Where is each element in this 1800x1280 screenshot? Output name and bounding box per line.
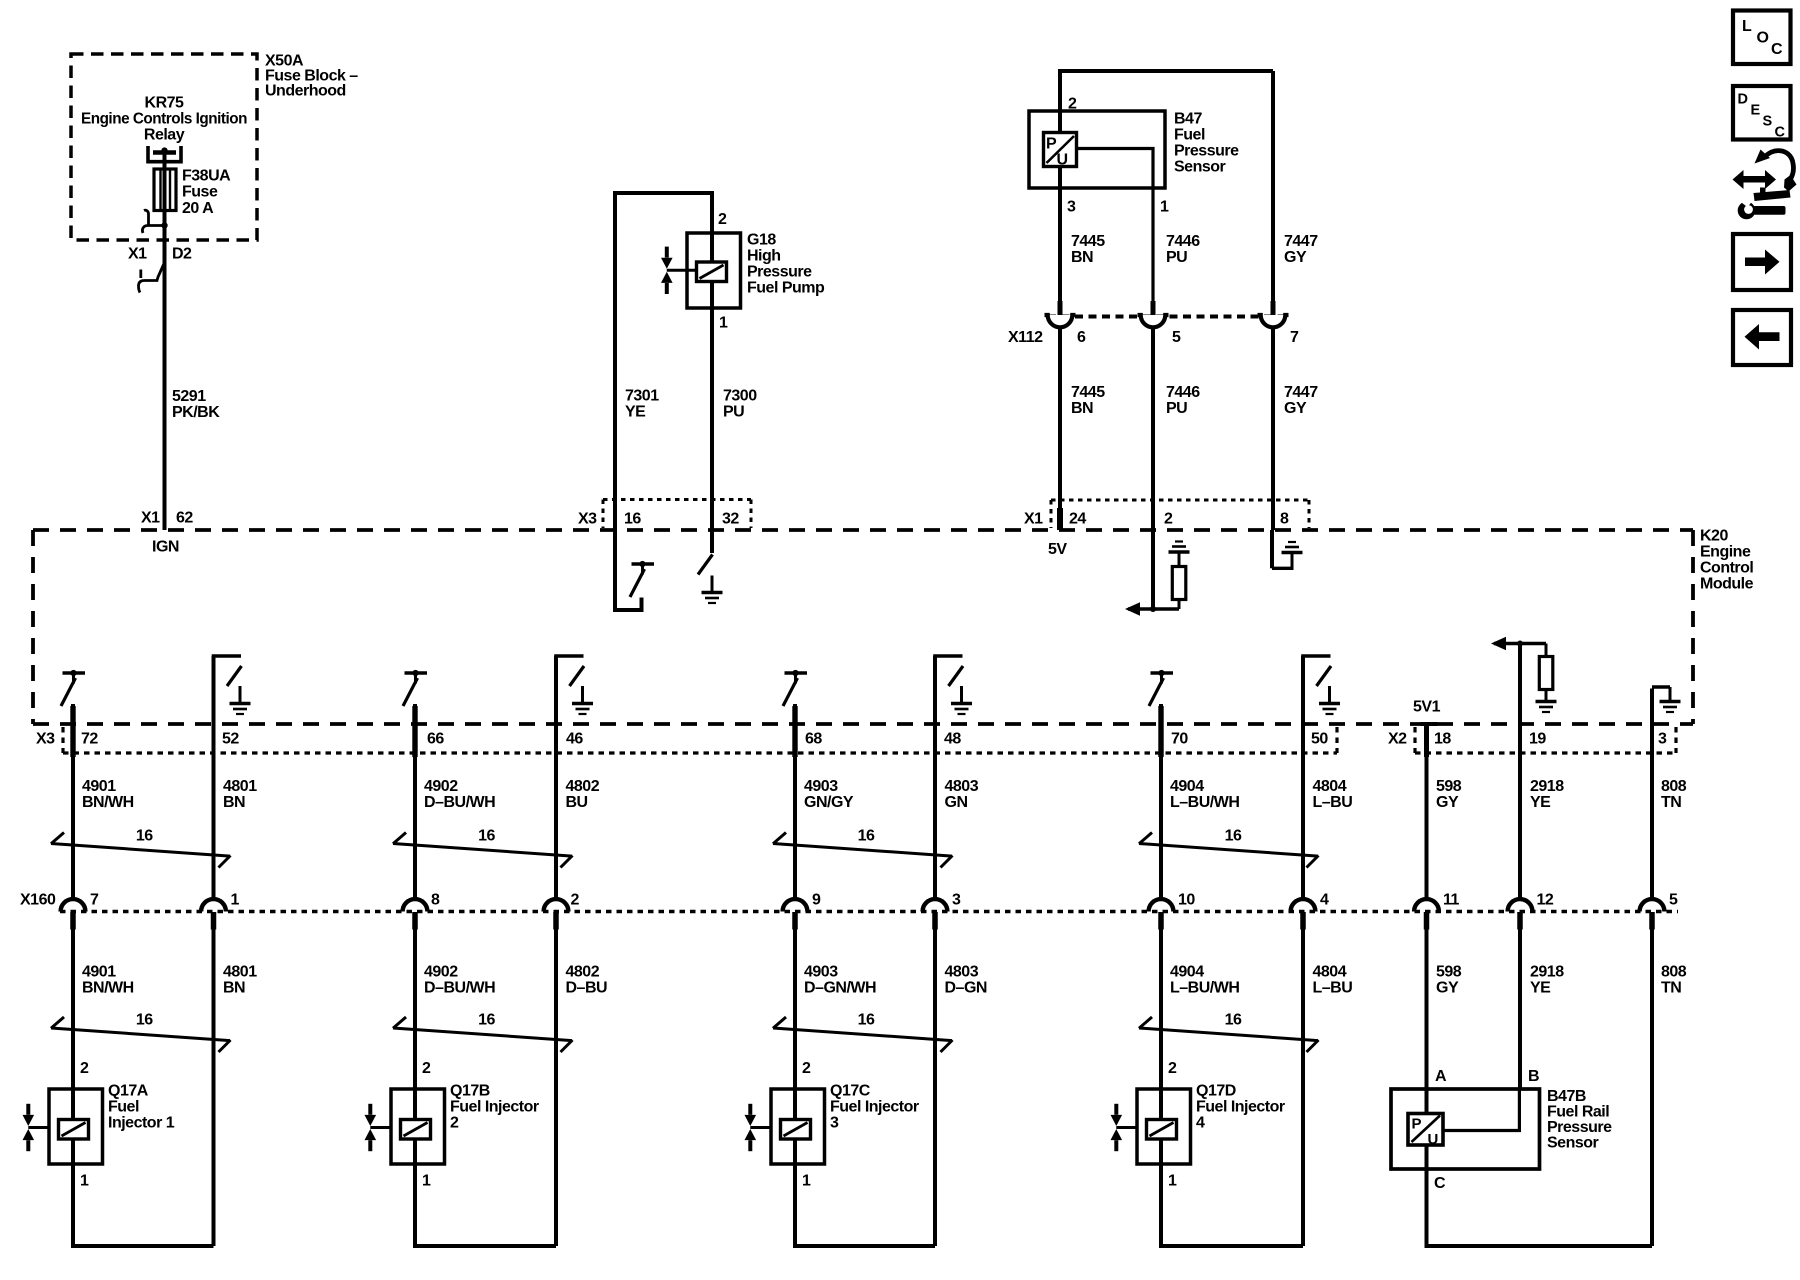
pin 2 label [1164, 511, 1173, 528]
wire 7447 GY lower [1271, 328, 1275, 530]
label X1 62 (ECM pin) [141, 510, 193, 527]
pin A label [1435, 1068, 1447, 1085]
svg-text:GY: GY [1436, 794, 1459, 811]
pin 24 label [1069, 511, 1086, 528]
pin 2 label injector 1 [80, 1060, 89, 1077]
pin 6 label [1077, 329, 1086, 346]
svg-text:2918: 2918 [1530, 778, 1564, 795]
pin 12 label [1537, 892, 1554, 909]
pin 3 label B47 [1067, 199, 1076, 216]
pin 16 label [624, 511, 641, 528]
svg-text:1: 1 [1160, 199, 1169, 216]
svg-text:5: 5 [1172, 329, 1181, 346]
connector X160 terminal pin 11 [1414, 899, 1439, 929]
svg-text:U: U [1428, 1131, 1438, 1148]
svg-text:C: C [1775, 125, 1786, 141]
svg-text:X112: X112 [1008, 329, 1043, 346]
wire 4801 ground (injector 1) [212, 656, 216, 900]
solenoid coil G18 [697, 262, 727, 282]
ECM internal: 5V1 supply pin X2-18 [1421, 722, 1438, 726]
pin 11 label [1443, 892, 1460, 909]
svg-text:X3: X3 [578, 511, 597, 528]
svg-text:32: 32 [722, 511, 739, 528]
svg-text:598: 598 [1436, 778, 1462, 795]
wire gauge 16 crossing (upper, injector 4) [1139, 833, 1319, 868]
pin 68 label [805, 731, 822, 748]
svg-text:Pressure: Pressure [1547, 1119, 1612, 1136]
label 4801 BN [223, 778, 257, 811]
svg-text:Fuel Rail: Fuel Rail [1547, 1104, 1609, 1121]
svg-text:Pressure: Pressure [1174, 143, 1239, 160]
svg-text:B: B [1528, 1068, 1539, 1085]
svg-text:7447: 7447 [1284, 384, 1318, 401]
pin C label [1434, 1175, 1446, 1192]
svg-text:Pressure: Pressure [747, 264, 812, 281]
label F38UA Fuse 20 A [182, 168, 231, 218]
label 4804 L–BU lower [1313, 964, 1353, 997]
wire gauge 16 crossing (upper, injector 2) [393, 833, 573, 868]
svg-text:YE: YE [1530, 980, 1551, 997]
svg-text:D–BU/WH: D–BU/WH [424, 794, 495, 811]
svg-text:Relay: Relay [144, 127, 185, 144]
svg-text:4: 4 [1196, 1115, 1205, 1132]
pin 8 label [431, 892, 440, 909]
svg-text:16: 16 [478, 828, 495, 845]
svg-text:High: High [747, 248, 781, 265]
pin 1 label injector 3 [802, 1173, 811, 1190]
svg-text:12: 12 [1537, 892, 1554, 909]
wire 7447 GY (B47 ground side) [1271, 71, 1275, 302]
pin 1 label injector 2 [422, 1173, 431, 1190]
label Q17B [450, 1083, 539, 1132]
svg-text:7301: 7301 [625, 388, 659, 405]
svg-text:D: D [1738, 92, 1748, 108]
ECM internal: injector 3 driver (pin 68) [783, 670, 807, 706]
svg-text:D–GN/WH: D–GN/WH [804, 980, 876, 997]
label 598 GY [1436, 778, 1462, 811]
pin 5 label [1669, 892, 1678, 909]
svg-text:S: S [1763, 114, 1773, 130]
label 4904 L–BU/WH [1170, 778, 1239, 811]
svg-text:Control: Control [1700, 560, 1753, 577]
svg-text:X1: X1 [1024, 511, 1043, 528]
svg-text:YE: YE [625, 404, 646, 421]
svg-text:BN/WH: BN/WH [82, 980, 134, 997]
label K20 Engine Control Module [1700, 528, 1754, 593]
connector X1 dotted box (pins 24 2 8) [1051, 500, 1309, 528]
connector X160 terminal pin 10 [1149, 899, 1174, 929]
svg-text:3: 3 [830, 1115, 839, 1132]
svg-text:Fuel Pump: Fuel Pump [747, 280, 825, 297]
wire 4901 control (injector 1) [71, 704, 75, 900]
svg-text:16: 16 [858, 828, 875, 845]
svg-text:2: 2 [422, 1060, 431, 1077]
svg-text:Fuel Injector: Fuel Injector [1196, 1099, 1285, 1116]
label X1 D2 (fuse block connector) [128, 246, 192, 263]
svg-text:4802: 4802 [566, 778, 600, 795]
label 4801 BN lower [223, 964, 257, 997]
label 7446 PU [1166, 233, 1200, 266]
svg-text:5291: 5291 [172, 388, 206, 405]
svg-text:3: 3 [1067, 199, 1076, 216]
pin label 48 [944, 731, 961, 748]
label 808 TN lower [1661, 964, 1687, 997]
label 4802 D–BU lower [566, 964, 608, 997]
label 7445 BN [1071, 233, 1105, 266]
icon DESC box [1733, 86, 1791, 141]
svg-text:4801: 4801 [223, 964, 257, 981]
pin 18 label [1434, 731, 1451, 748]
label 4802 BU [566, 778, 600, 811]
ECM internal: low-side driver for pin X3-16 [615, 530, 642, 610]
label 5V1 [1413, 699, 1441, 716]
connector X112 terminal (pin 6) [1045, 301, 1076, 327]
B47 P/U transducer square [1044, 133, 1077, 169]
pin label 48 [1311, 731, 1328, 748]
svg-text:3: 3 [952, 892, 961, 909]
svg-text:YE: YE [1530, 794, 1551, 811]
wire gauge 16 crossing (lower, injector 2) [393, 1017, 573, 1052]
svg-text:2: 2 [571, 892, 580, 909]
wire gauge 16 crossing (lower, injector 4) [1139, 1017, 1319, 1052]
pin 2 label G18 [718, 211, 727, 228]
svg-text:16: 16 [1225, 828, 1242, 845]
svg-text:7446: 7446 [1166, 384, 1200, 401]
svg-text:7447: 7447 [1284, 233, 1318, 250]
svg-text:4902: 4902 [424, 778, 458, 795]
svg-text:2918: 2918 [1530, 964, 1564, 981]
svg-text:7300: 7300 [723, 388, 757, 405]
wire 4803 ground (injector 3) [933, 656, 937, 900]
svg-text:O: O [1757, 30, 1769, 47]
connector X160 terminal pin 5 [1640, 899, 1665, 929]
svg-text:BN: BN [223, 794, 245, 811]
svg-text:IGN: IGN [152, 539, 179, 556]
connector X112 terminal (pin 5) [1138, 301, 1169, 327]
pin 9 label [812, 892, 821, 909]
connector X112 dashed line [1048, 315, 1287, 319]
svg-text:TN: TN [1661, 980, 1681, 997]
K20 Engine Control Module dashed box [33, 530, 1693, 724]
svg-text:L–BU: L–BU [1313, 794, 1353, 811]
B47B P/U transducer square [1408, 1114, 1443, 1149]
svg-text:L–BU: L–BU [1313, 980, 1353, 997]
ECM internal: injector 2 ground driver (pin 46) [554, 656, 593, 714]
pin 2 label [571, 892, 580, 909]
svg-text:5: 5 [1669, 892, 1678, 909]
label KR75 Engine Controls Ignition Relay [81, 95, 247, 144]
svg-text:PK/BK: PK/BK [172, 404, 220, 421]
svg-text:598: 598 [1436, 964, 1462, 981]
label 2918 YE [1530, 778, 1564, 811]
label X1 [1024, 511, 1043, 528]
label 4901 BN/WH [82, 778, 134, 811]
pin 2 label injector 4 [1168, 1060, 1177, 1077]
label 4901 BN/WH lower [82, 964, 134, 997]
label Q17D [1196, 1083, 1285, 1132]
svg-text:Q17A: Q17A [108, 1083, 149, 1100]
svg-text:2: 2 [718, 211, 727, 228]
label 4903 GN/GY [804, 778, 854, 811]
svg-text:4804: 4804 [1313, 964, 1347, 981]
label X160 [20, 892, 56, 909]
svg-text:2: 2 [1164, 511, 1173, 528]
wire 7301 YE loop (G18 pin 2 feed) [615, 193, 712, 530]
pin 10 label [1178, 892, 1195, 909]
pin 1 label injector 1 [80, 1173, 89, 1190]
svg-text:BU: BU [566, 794, 588, 811]
svg-text:8: 8 [431, 892, 440, 909]
svg-text:16: 16 [624, 511, 641, 528]
svg-text:50: 50 [1311, 731, 1328, 748]
B47 internal wire pin 1 [1077, 149, 1154, 303]
pin 32 label [722, 511, 739, 528]
ECM internal: injector 2 driver (pin 66) [403, 670, 427, 706]
svg-text:E: E [1751, 103, 1761, 119]
svg-text:2: 2 [802, 1060, 811, 1077]
label B47 Fuel Pressure Sensor [1174, 111, 1239, 176]
svg-text:X1: X1 [128, 246, 147, 263]
svg-text:1: 1 [719, 315, 728, 332]
svg-text:G18: G18 [747, 232, 776, 249]
svg-text:16: 16 [1225, 1012, 1242, 1029]
label 7447 GY [1284, 233, 1318, 266]
connector X160 terminal pin 9 [783, 899, 808, 929]
wire top loop B47 pin 2 [1060, 71, 1273, 133]
connector X112 terminal (pin 7) [1258, 301, 1289, 327]
svg-text:BN: BN [1071, 400, 1093, 417]
icon harness routing (double arrow and wrench) [1733, 150, 1797, 220]
svg-text:TN: TN [1661, 794, 1681, 811]
label X2 [1388, 731, 1407, 748]
pin 7 label [90, 892, 99, 909]
valve symbol G18 [661, 247, 673, 294]
pin 66 label [427, 731, 444, 748]
svg-text:GN: GN [945, 794, 968, 811]
ECM internal: injector 1 ground driver (pin 52) [212, 656, 251, 714]
svg-text:16: 16 [136, 828, 153, 845]
connector X2 dotted box [1415, 727, 1676, 753]
label B47B Fuel Rail Pressure Sensor [1547, 1088, 1612, 1152]
connector X3 dotted box (pins 16 32) [603, 500, 751, 529]
label Q17C [830, 1083, 919, 1132]
fuel injector Q17A [23, 1089, 103, 1164]
svg-text:KR75: KR75 [145, 95, 185, 112]
wire injector 4 bottom loop [1161, 1139, 1303, 1247]
pin label 48 [566, 731, 583, 748]
label X3 bottom [36, 731, 55, 748]
pin 3 label [1658, 731, 1667, 748]
svg-text:P: P [1046, 136, 1057, 153]
svg-text:BN: BN [1071, 249, 1093, 266]
svg-text:2: 2 [1168, 1060, 1177, 1077]
ECM internal: injector 1 driver (pin 72) [61, 670, 85, 706]
connector X160 terminal pin 1 [201, 899, 226, 929]
valve link G18 [667, 269, 697, 272]
label 7447 GY lower [1284, 384, 1318, 417]
pin 72 label [81, 731, 98, 748]
pin 1 label B47 [1160, 199, 1169, 216]
svg-text:PU: PU [723, 404, 744, 421]
svg-text:7: 7 [1290, 329, 1299, 346]
wire injector 3 bottom loop [795, 1139, 935, 1247]
wire gauge 16 crossing (upper, injector 3) [773, 833, 953, 868]
label 7445 BN lower [1071, 384, 1105, 417]
svg-text:Sensor: Sensor [1174, 159, 1226, 176]
B47 Fuel Pressure Sensor box [1029, 111, 1165, 188]
icon LOC box [1733, 11, 1791, 65]
pin B label [1528, 1068, 1539, 1085]
svg-text:L–BU/WH: L–BU/WH [1170, 980, 1239, 997]
svg-text:68: 68 [805, 731, 822, 748]
pin 19 label [1529, 731, 1546, 748]
svg-text:Injector 1: Injector 1 [108, 1115, 175, 1132]
label 5V [1048, 541, 1067, 558]
svg-text:808: 808 [1661, 778, 1687, 795]
ECM internal: ground for pin X3-32 [710, 530, 714, 553]
B47B Fuel Rail Pressure Sensor box [1391, 1089, 1540, 1169]
ECM internal: low reference pin X1-8 [1272, 530, 1303, 570]
svg-text:Fuel Injector: Fuel Injector [450, 1099, 539, 1116]
pin 2 label injector 2 [422, 1060, 431, 1077]
svg-text:62: 62 [176, 510, 193, 527]
wire 598 GY [1425, 724, 1429, 900]
wire 4902 control (injector 2) [413, 704, 417, 900]
ECM internal: 5V supply pin X1-24 [1057, 508, 1063, 530]
pin 7 label [1290, 329, 1299, 346]
fuse block X50A dashed box [71, 54, 257, 240]
connector X160 terminal pin 3 [923, 899, 948, 929]
pin 2 label B47 [1068, 96, 1077, 113]
pin 1 label G18 [719, 315, 728, 332]
svg-text:1: 1 [231, 892, 240, 909]
label 7300 PU [723, 388, 757, 421]
svg-text:A: A [1435, 1068, 1447, 1085]
svg-text:D–BU: D–BU [566, 980, 608, 997]
svg-text:Underhood: Underhood [265, 83, 346, 100]
svg-text:L: L [1742, 18, 1752, 35]
G18 High Pressure Fuel Pump box [687, 233, 741, 308]
svg-text:Fuel: Fuel [108, 1099, 139, 1116]
svg-text:4904: 4904 [1170, 964, 1204, 981]
svg-text:X2: X2 [1388, 731, 1407, 748]
svg-text:16: 16 [478, 1012, 495, 1029]
svg-text:Fuse: Fuse [182, 184, 218, 201]
fuel injector Q17C [745, 1089, 825, 1164]
wire 2918 YE [1518, 724, 1522, 900]
wire 7300 PU (G18 pin 1) [710, 281, 714, 530]
connector X160 terminal pin 8 [403, 899, 428, 929]
icon back arrow box [1733, 310, 1791, 365]
label X3 [578, 511, 597, 528]
svg-text:GY: GY [1284, 400, 1307, 417]
wire hook branch below fuse block (X1/D2) [139, 264, 165, 293]
svg-text:BN: BN [223, 980, 245, 997]
svg-text:4801: 4801 [223, 778, 257, 795]
svg-text:2: 2 [80, 1060, 89, 1077]
svg-text:4: 4 [1320, 892, 1329, 909]
svg-text:10: 10 [1178, 892, 1195, 909]
label X112 [1008, 329, 1043, 346]
svg-text:24: 24 [1069, 511, 1086, 528]
svg-text:B47B: B47B [1547, 1088, 1586, 1105]
svg-text:808: 808 [1661, 964, 1687, 981]
label 4904 L–BU/WH lower [1170, 964, 1239, 997]
icon forward arrow box [1733, 234, 1791, 290]
wire 808 TN [1650, 753, 1654, 900]
svg-text:4901: 4901 [82, 778, 116, 795]
connector X160 dotted line [60, 910, 1678, 913]
connector X3 bottom dotted line [63, 727, 1337, 753]
pin label 48 [222, 731, 239, 748]
wire B47 pin 3 [1058, 167, 1062, 303]
svg-text:B47: B47 [1174, 111, 1202, 128]
svg-text:U: U [1057, 152, 1068, 169]
wire 7445 BN lower [1058, 328, 1062, 508]
label Q17A [108, 1083, 175, 1132]
svg-text:P: P [1412, 1116, 1422, 1133]
svg-text:Engine: Engine [1700, 544, 1751, 561]
label 4902 D–BU/WH lower [424, 964, 495, 997]
svg-text:46: 46 [566, 731, 583, 748]
wire 7446 PU lower [1151, 328, 1155, 530]
connector X160 terminal pin 2 [544, 899, 569, 929]
svg-text:4803: 4803 [945, 778, 979, 795]
svg-text:Q17C: Q17C [830, 1083, 871, 1100]
svg-text:9: 9 [812, 892, 821, 909]
ECM internal: signal pin X2-19 pull-up and arrow [1491, 637, 1557, 724]
svg-text:4902: 4902 [424, 964, 458, 981]
svg-text:C: C [1434, 1175, 1446, 1192]
wire gauge 16 crossing (upper, injector 1) [51, 833, 231, 868]
wire B47B pin C [1427, 1145, 1653, 1246]
svg-text:1: 1 [1168, 1173, 1177, 1190]
svg-text:18: 18 [1434, 731, 1451, 748]
connector X160 terminal pin 4 [1291, 899, 1316, 929]
svg-text:1: 1 [422, 1173, 431, 1190]
label 4804 L–BU [1313, 778, 1353, 811]
svg-text:7445: 7445 [1071, 233, 1105, 250]
wire 4904 control (injector 4) [1159, 704, 1163, 900]
svg-text:6: 6 [1077, 329, 1086, 346]
svg-text:52: 52 [222, 731, 239, 748]
svg-text:4903: 4903 [804, 964, 838, 981]
wire 5291 PK/BK from relay through fuse to ECM pin X1-62 [163, 153, 167, 531]
pin 4 label [1320, 892, 1329, 909]
svg-text:Q17D: Q17D [1196, 1083, 1236, 1100]
label 2918 YE lower [1530, 964, 1564, 997]
svg-text:Fuel: Fuel [1174, 127, 1205, 144]
svg-text:Module: Module [1700, 576, 1754, 593]
B47B internal wire pin B [1443, 1089, 1519, 1131]
svg-text:Q17B: Q17B [450, 1083, 490, 1100]
relay KR75 contact symbol [148, 146, 181, 162]
svg-text:4803: 4803 [945, 964, 979, 981]
wire injector 1 bottom loop [73, 1139, 214, 1247]
connector X160 terminal pin 7 [61, 899, 86, 929]
svg-text:66: 66 [427, 731, 444, 748]
svg-text:16: 16 [858, 1012, 875, 1029]
ECM internal: injector 3 ground driver (pin 48) [933, 656, 972, 714]
svg-text:16: 16 [136, 1012, 153, 1029]
pin 1 label [231, 892, 240, 909]
svg-text:Sensor: Sensor [1547, 1135, 1599, 1152]
svg-text:8: 8 [1280, 511, 1289, 528]
svg-text:11: 11 [1443, 892, 1460, 909]
fuel injector Q17B [365, 1089, 445, 1164]
connector X160 terminal pin 12 [1508, 899, 1533, 929]
svg-text:X3: X3 [36, 731, 55, 748]
